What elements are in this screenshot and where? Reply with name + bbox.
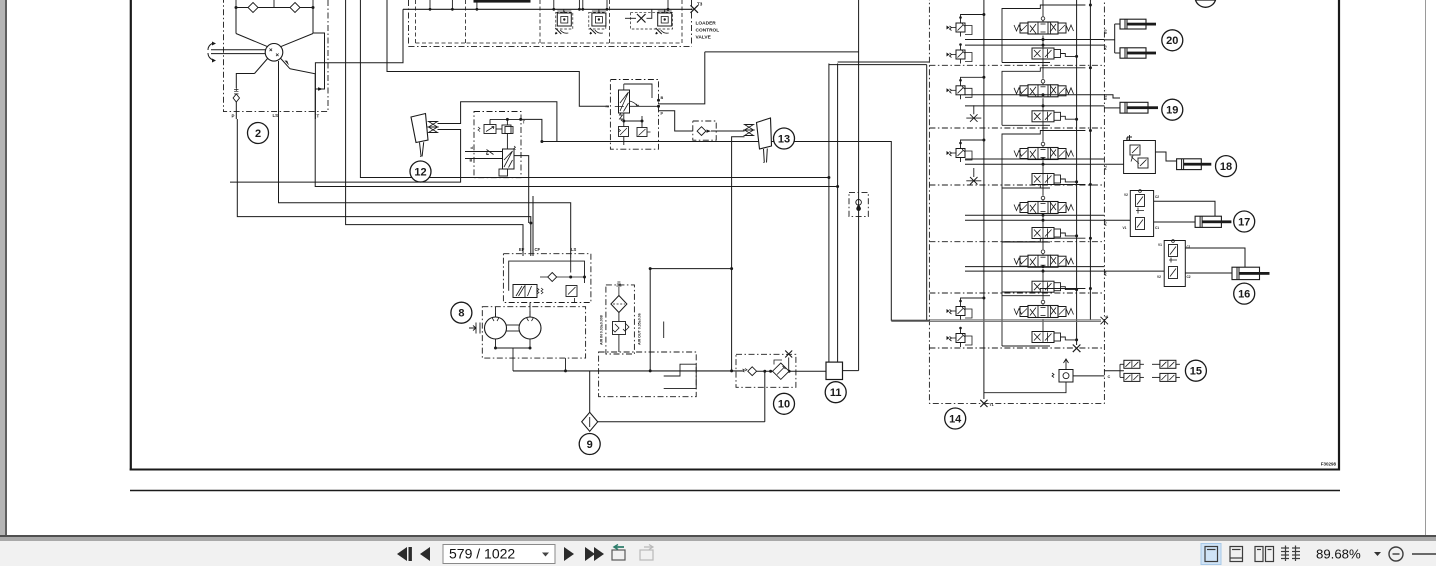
- wire relief a drain: [623, 137, 625, 146]
- wire spool to aux: [1042, 36, 1044, 49]
- steering unit callout 2: [248, 123, 269, 144]
- svg-text:89.68%: 89.68%: [1316, 546, 1361, 561]
- wire coupler feed a: [1120, 363, 1124, 365]
- svg-text:18: 18: [1220, 161, 1232, 173]
- bucket cylinder 18: [1177, 159, 1212, 170]
- steering unit envelope upper-left link: [236, 34, 268, 47]
- relief sub-box 3: [631, 12, 673, 29]
- svg-text:P: P: [232, 114, 235, 119]
- wire section frame bottom: [1002, 187, 1050, 189]
- wire section frame bottom: [1002, 345, 1050, 347]
- wire section frame bottom: [1002, 241, 1050, 243]
- wire steering top-left leg: [235, 8, 237, 34]
- loader valve inner section box 1: [415, 0, 417, 43]
- wire to valve bank inlet upper: [829, 64, 927, 66]
- wire to cyl 20a: [1115, 23, 1120, 25]
- loader valve inner section box 2: [539, 0, 541, 43]
- aux valve section 5: [1032, 281, 1061, 292]
- svg-text:579 / 1022: 579 / 1022: [449, 545, 515, 561]
- valve bank section separator: [929, 292, 1104, 294]
- wire unloader drain: [984, 382, 1066, 393]
- wire port stub: [451, 0, 453, 9]
- wire section frame: [1002, 289, 1085, 347]
- priority valve spool: [513, 285, 543, 298]
- cylinder callout 20: [1162, 30, 1183, 51]
- wire swing line upper: [930, 319, 1102, 321]
- cylinder callout 17: [1234, 211, 1255, 232]
- svg-text:AIR OUT 0.35±0.06: AIR OUT 0.35±0.06: [638, 313, 642, 345]
- wire relief drain drop: [565, 358, 567, 371]
- partial callout circle 21: [1196, 0, 1216, 7]
- svg-text:17: 17: [1238, 216, 1250, 228]
- wire section frame: [1002, 131, 1085, 189]
- gear pump rear: [519, 317, 541, 339]
- svg-text:C1: C1: [1155, 226, 1159, 230]
- wire diamond right stub: [557, 276, 585, 278]
- wire filter internal: [618, 313, 620, 322]
- wire block 17 to cylinder: [1154, 221, 1196, 223]
- wire bank center bus segment: [1042, 292, 1044, 299]
- pilot pressure reducing valve: [478, 125, 502, 134]
- filter bypass check valves: [613, 322, 630, 335]
- wire work port A: [965, 219, 1104, 221]
- wire bank inlet drop: [926, 65, 928, 321]
- cut-off valve body above gallery: [474, 0, 531, 3]
- svg-text:B: B: [470, 159, 473, 163]
- wire loader valve drain to T leg: [315, 9, 403, 119]
- check valve diamond on steering top header right: [290, 3, 300, 13]
- wire spool to aux: [1042, 319, 1044, 332]
- wire swing line lower: [891, 320, 1101, 322]
- wire block 17 to cylinder top: [1154, 201, 1215, 216]
- wire T return line long: [315, 119, 837, 187]
- wire to cyl 20b: [1115, 52, 1120, 54]
- joystick callout 13: [774, 128, 795, 149]
- wire steering T leg: [290, 69, 315, 119]
- svg-text:12: 12: [414, 166, 426, 178]
- aux valve section 6: [1032, 332, 1061, 343]
- aux valve section 1: [1032, 48, 1061, 59]
- svg-text:11: 11: [830, 387, 842, 399]
- orifice plug: [966, 114, 981, 122]
- pilot valve section 6a: [947, 300, 973, 320]
- coupler 15a: [1124, 360, 1144, 368]
- wire shutoff right stub: [647, 9, 652, 18]
- hydraulic filter box: [606, 285, 635, 354]
- wire coupler feed b: [1120, 376, 1124, 378]
- wire relief valve feed stub: [563, 9, 565, 13]
- svg-text:F30298: F30298: [1321, 462, 1337, 467]
- shutoff X valve: [637, 14, 646, 23]
- wire main tank line: [513, 370, 742, 372]
- wire port stub: [606, 0, 608, 9]
- pump callout 8: [451, 302, 472, 323]
- svg-text:T: T: [523, 120, 526, 125]
- relief sub-box 1: [556, 12, 573, 29]
- stabilizer cylinder 16: [1232, 267, 1270, 279]
- lift cylinder 20b: [1120, 48, 1156, 58]
- pilot valve section 2a: [947, 79, 973, 99]
- steering unit enclosure box 2: [224, 0, 329, 112]
- wire priority valve internal frame: [509, 261, 585, 291]
- wire port stub: [667, 0, 669, 9]
- wire aux to bus: [1061, 337, 1077, 340]
- oil cooler 11: [826, 362, 843, 379]
- main spool valve section 1: [1014, 17, 1074, 34]
- wire P line to priority valve CF: [237, 119, 531, 256]
- cooler callout 11: [825, 382, 846, 403]
- main spool valve section 4: [1014, 196, 1074, 213]
- drawing frame bottom border: [130, 469, 1340, 471]
- wire check valve to joystick 13: [711, 130, 745, 132]
- wire work port A: [965, 44, 1104, 46]
- main spool valve section 6: [1014, 300, 1074, 317]
- wire pilot T to gallery: [521, 119, 542, 141]
- pilot supply valve box: [474, 112, 521, 178]
- svg-text:8: 8: [458, 308, 464, 320]
- gear pump front: [485, 317, 507, 339]
- svg-text:A0: A0: [1104, 221, 1108, 226]
- wire spool to relief b: [641, 116, 643, 128]
- svg-text:14: 14: [949, 413, 962, 425]
- wire bank power bus b: [1089, 0, 1091, 320]
- svg-text:EF: EF: [519, 247, 525, 252]
- wire bank center bus segment: [1042, 239, 1044, 250]
- pilot valve section 1b: [947, 43, 973, 63]
- valve bank section separator: [929, 241, 1104, 243]
- circuit relief valve A: [590, 11, 606, 34]
- wire port stub: [553, 0, 555, 9]
- svg-text:V1: V1: [1158, 243, 1162, 247]
- wire stub above junction left: [235, 0, 237, 8]
- cylinder callout 18: [1216, 156, 1237, 177]
- wire pump suction bridge: [496, 339, 531, 348]
- wire aux to bus: [1061, 233, 1077, 236]
- svg-text:T: T: [317, 114, 320, 119]
- wire to valve bank inlet lower: [838, 61, 930, 63]
- svg-text:A4: A4: [1104, 271, 1108, 276]
- wire return line upper long: [360, 0, 829, 178]
- wire filter outlet: [618, 335, 620, 353]
- joystick 13 dual check cross: [745, 125, 754, 136]
- inlet check valve on P leg: [234, 88, 238, 94]
- wire filter junction to pilot return: [650, 268, 731, 270]
- svg-text:19: 19: [1166, 105, 1178, 117]
- svg-text:VALVE: VALVE: [696, 35, 712, 41]
- svg-text:CF: CF: [535, 247, 541, 252]
- wire spool to aux: [1042, 161, 1044, 174]
- steering unit envelope lower-left link: [255, 58, 269, 74]
- solenoid control valve box: [610, 80, 658, 150]
- wire port stub: [578, 0, 580, 9]
- pressure switch box: [849, 193, 868, 217]
- wire solenoid supply top: [705, 51, 859, 53]
- coupler callout 15: [1185, 360, 1206, 381]
- cylinder callout 16: [1234, 283, 1255, 304]
- solenoid pilot relief a: [619, 127, 629, 137]
- pilot joystick lever 12: [411, 114, 428, 157]
- stabilizer cylinder 17: [1195, 216, 1231, 227]
- svg-text:B1: B1: [1126, 137, 1130, 141]
- wire block 16 to cylinder top: [1185, 248, 1245, 267]
- wire reservoir stub: [663, 322, 665, 339]
- wire to cylinder 19 rod: [1104, 107, 1120, 109]
- reservoir assembly box: [599, 352, 697, 397]
- steering metering unit rotor: [265, 44, 283, 62]
- wire steering top-right leg: [312, 8, 314, 34]
- wire pilot valve T gallery: [490, 118, 521, 120]
- svg-text:C: C: [1108, 375, 1111, 379]
- pilot check valve box: [693, 121, 716, 140]
- circuit relief valve A2: [656, 11, 672, 34]
- wire pilot valve port d: [465, 151, 503, 153]
- wire plug stub: [788, 358, 790, 372]
- wire joystick 13 return down: [732, 137, 745, 371]
- svg-text:10: 10: [778, 399, 790, 411]
- wire stub above junction right: [312, 0, 314, 8]
- joystick 12 dual check cross: [429, 122, 438, 133]
- wire bank center bus segment: [1042, 0, 1044, 16]
- svg-text:AIR IN 0.03±0.008: AIR IN 0.03±0.008: [600, 315, 604, 345]
- valve bank section separator: [929, 127, 1104, 129]
- wire coupler link b: [1152, 376, 1160, 378]
- priority flow control valve box: [503, 254, 591, 303]
- wire pump rear outlet: [529, 303, 531, 318]
- svg-text:V2: V2: [1157, 275, 1161, 279]
- wire aux to bus: [1061, 179, 1077, 182]
- wire pump front outlet: [495, 307, 497, 317]
- pilot accumulator: [502, 125, 513, 134]
- wire steering internal T return: [313, 33, 325, 89]
- wire lift cylinder manifold: [1114, 24, 1116, 53]
- wire work port B: [965, 39, 1104, 41]
- lift cylinder 20a: [1120, 19, 1156, 29]
- wire steering LS leg: [278, 61, 280, 119]
- filter element diamond: [611, 296, 627, 313]
- check valve callout 10: [774, 393, 795, 414]
- wire LS line to priority valve: [279, 119, 571, 258]
- svg-text:20: 20: [1166, 35, 1178, 47]
- valve bank callout 14: [945, 408, 966, 429]
- wire section frame: [1002, 238, 1085, 296]
- steering unit envelope upper-right link: [280, 34, 313, 47]
- plugged port T3: [691, 5, 699, 13]
- wire work port A: [965, 105, 1104, 107]
- wire pilot feed to solenoid valve m port: [387, 0, 609, 106]
- wire shutoff left stub: [625, 17, 636, 19]
- wire pilot to bus: [961, 140, 984, 143]
- main spool valve section 3: [1014, 142, 1074, 159]
- wire bank center bus segment: [1042, 122, 1044, 142]
- valve bank section separator: [929, 64, 1104, 66]
- svg-text:13: 13: [778, 133, 790, 145]
- lock valve block 17: [1130, 190, 1153, 237]
- svg-text:9: 9: [587, 439, 593, 451]
- pilot relief valve small: [487, 150, 494, 155]
- swing cylinder 19: [1120, 102, 1158, 113]
- wire to block 18: [1104, 163, 1123, 165]
- wire drop to check valve 9: [589, 371, 591, 412]
- wire to block 17: [1104, 219, 1130, 221]
- pressure switch: [856, 200, 862, 206]
- plugged port swing: [1101, 317, 1109, 325]
- svg-text:p: p: [661, 111, 664, 115]
- cooler bypass check box 10: [736, 354, 796, 387]
- wire to cylinder 19 head: [1104, 95, 1120, 98]
- check valve diamond on steering top header: [248, 3, 258, 13]
- reservoir internal weir: [664, 364, 697, 388]
- wire to couplers 15: [1104, 370, 1124, 372]
- svg-text:C2: C2: [1187, 275, 1191, 279]
- valve bank section separator: [929, 184, 1104, 186]
- wire port stub: [476, 0, 478, 9]
- wire steering top header: [236, 7, 313, 9]
- wire bank center bus segment: [1042, 185, 1044, 196]
- wire spool to aux: [1042, 215, 1044, 228]
- wire orifice stub: [973, 105, 975, 114]
- wire pilot valve port B: [465, 158, 503, 160]
- svg-text:B2: B2: [1104, 95, 1108, 100]
- backhoe control valve bank enclosure 14: [929, 0, 1104, 403]
- drawing frame right border: [1338, 0, 1340, 471]
- svg-text:A3: A3: [1104, 45, 1108, 50]
- wire solenoid B port: [630, 105, 659, 107]
- coupler 15c: [1160, 360, 1180, 368]
- wire return from cooler circuit: [598, 421, 765, 423]
- cooler check valve: [743, 369, 748, 372]
- svg-text:V2: V2: [1124, 193, 1128, 197]
- svg-text:T1: T1: [989, 402, 994, 407]
- wire work port B: [965, 266, 1104, 268]
- svg-text:15: 15: [1190, 366, 1202, 378]
- wire relief bridge: [624, 120, 642, 122]
- main spool valve section 5: [1014, 250, 1074, 267]
- loader valve inner section box 3: [609, 0, 611, 43]
- wire orifice stub: [973, 168, 975, 177]
- wire steering P leg lower: [235, 102, 237, 119]
- joystick callout 12: [410, 161, 431, 182]
- wire to block 16: [1104, 270, 1164, 272]
- wire spool to relief a: [623, 113, 625, 127]
- plugged port on bus a: [1073, 345, 1081, 353]
- svg-text:V1: V1: [1123, 226, 1127, 230]
- svg-text:m: m: [606, 104, 610, 109]
- priority relief valve: [566, 286, 577, 303]
- wire pilot supply output down: [514, 156, 529, 196]
- loader control valve enclosure: [409, 45, 692, 47]
- wire solenoid internal bridge: [624, 84, 652, 98]
- wire section frame bottom: [1002, 124, 1050, 126]
- drawing frame left border: [130, 0, 132, 471]
- relief sub-box 2: [589, 12, 606, 29]
- wire aux to bus: [1061, 54, 1077, 57]
- coupler 15b: [1124, 373, 1144, 381]
- wire work port A: [965, 163, 1104, 165]
- circuit relief valve T-B: [555, 11, 571, 34]
- suction check valve 9: [582, 412, 598, 431]
- wire cooler bypass riser: [858, 0, 860, 371]
- wire accumulator to spool: [506, 134, 508, 150]
- valve bank section separator: [929, 347, 1104, 349]
- wire pump suction drop: [512, 348, 514, 371]
- wire steering P leg upper: [236, 74, 254, 89]
- wire section frame: [1002, 5, 1085, 63]
- lock valve block 18: [1124, 135, 1156, 174]
- svg-text:LOADER: LOADER: [696, 21, 717, 27]
- wire spool to aux: [1042, 98, 1044, 111]
- aux valve section 3: [1032, 174, 1061, 185]
- solenoid pilot relief b: [637, 128, 651, 137]
- pilot valve section 6b: [947, 327, 973, 347]
- wire LS into box: [570, 258, 572, 273]
- wire work port B: [965, 214, 1104, 216]
- steering unit lower-right link with arrow: [280, 58, 290, 69]
- wire port stub: [582, 0, 584, 9]
- plugged port X above box 10: [785, 351, 792, 358]
- orifice plug: [966, 177, 981, 185]
- svg-text:B3: B3: [1104, 29, 1108, 34]
- bank unloading valve: [1052, 359, 1073, 382]
- pump drive shaft coupling: [507, 324, 520, 326]
- pilot directional spool valve: [499, 146, 516, 176]
- lock valve block 16: [1164, 240, 1185, 287]
- pilot joystick lever 13: [757, 118, 772, 163]
- pilot valve section 3a: [947, 142, 973, 162]
- wire aux to bus: [1061, 287, 1077, 290]
- wire relief valve feed stub: [598, 9, 600, 13]
- plugged port T1: [980, 400, 987, 407]
- wire stub steering center: [273, 0, 275, 8]
- wire solenoid p to check valve: [659, 111, 693, 131]
- tandem pump box: [482, 307, 585, 358]
- bypass relief diamond: [773, 360, 790, 379]
- svg-text:B: B: [1105, 315, 1109, 318]
- wire loader valve top gallery: [403, 8, 693, 10]
- wire T into pilot gallery: [542, 141, 557, 143]
- wire to lift cylinders: [1104, 39, 1114, 41]
- wire aux to bus: [1061, 116, 1077, 119]
- wire accumulator stub: [506, 119, 508, 125]
- wire cooler outlet right: [843, 370, 859, 372]
- wire section frame bottom: [1002, 295, 1050, 297]
- wire bank power bus a: [1076, 0, 1078, 345]
- page footer rule: [130, 490, 1340, 492]
- wire cooler feed line b: [837, 64, 839, 363]
- wire check to cooler: [757, 370, 826, 372]
- wire bank center bus segment: [1042, 59, 1044, 79]
- wire block 16 to cylinder: [1185, 272, 1232, 274]
- steering column input shaft: [211, 49, 266, 51]
- svg-text:T3: T3: [697, 2, 703, 7]
- wire filter return riser: [649, 269, 651, 371]
- wire port stub: [429, 0, 431, 9]
- check valve callout 9: [579, 434, 600, 455]
- svg-text:d: d: [471, 146, 474, 150]
- svg-text:A1: A1: [1104, 165, 1108, 170]
- wire section frame: [1002, 185, 1085, 243]
- loader valve inner section box 4: [681, 0, 683, 43]
- wire cooler feed line a: [828, 64, 830, 363]
- wire pilot to bus: [961, 77, 984, 80]
- svg-text:2: 2: [255, 128, 261, 140]
- svg-text:LS: LS: [273, 113, 279, 118]
- wire coupler manifold: [1119, 364, 1121, 377]
- pilot valve section 1a: [947, 16, 973, 36]
- main spool valve section 2: [1014, 80, 1074, 97]
- wire reducing valve top stub: [489, 119, 491, 124]
- wire section frame bottom: [1002, 62, 1050, 64]
- wire section frame: [1002, 68, 1085, 126]
